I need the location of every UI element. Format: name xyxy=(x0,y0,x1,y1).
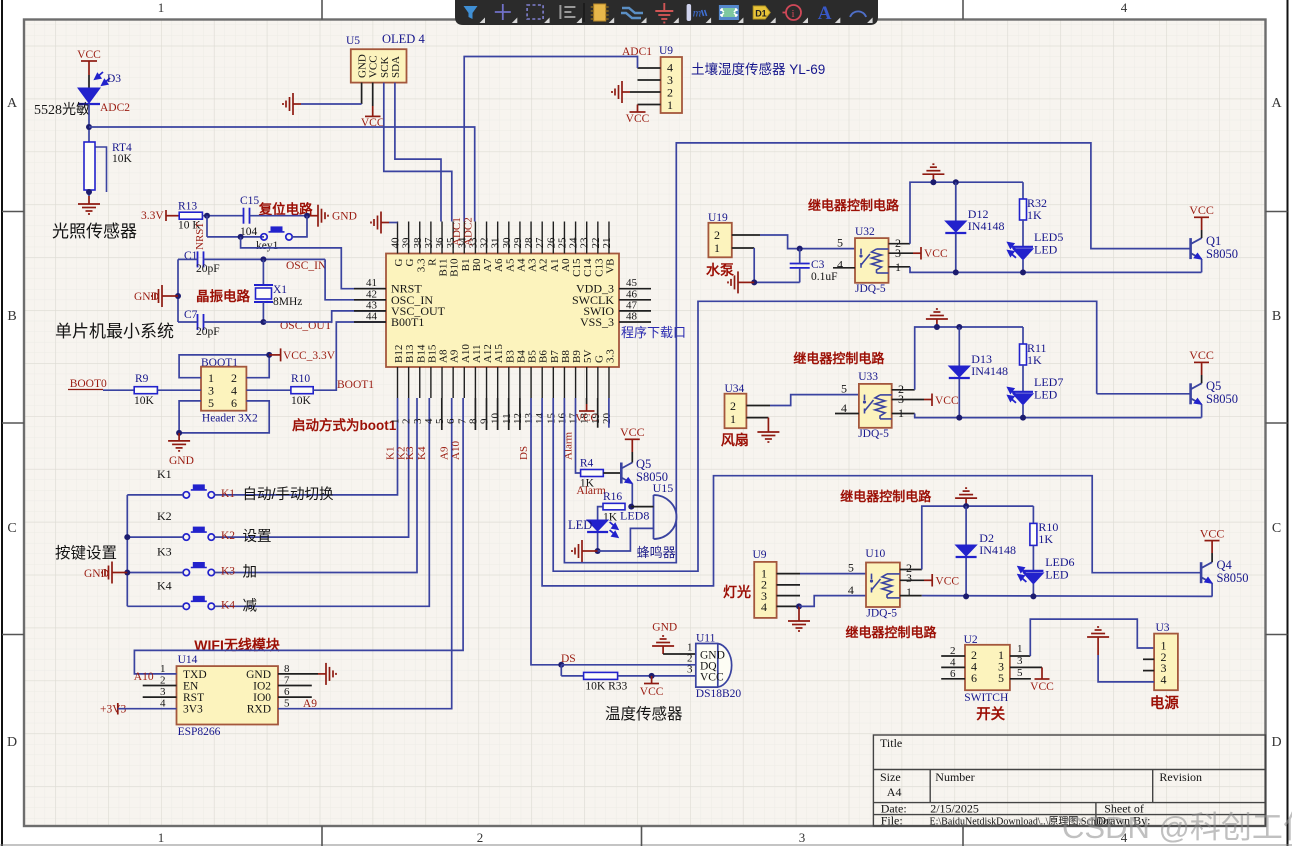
svg-text:设置: 设置 xyxy=(243,528,272,545)
svg-text:48: 48 xyxy=(626,311,638,323)
svg-text:D: D xyxy=(7,735,17,750)
pin U9b-2 stub xyxy=(777,584,800,586)
wire C1 left rail xyxy=(178,258,198,260)
ground MCU pin40 xyxy=(371,212,389,234)
pin relay2-3 VCC xyxy=(892,399,924,401)
svg-text:IN4148: IN4148 xyxy=(971,364,1008,378)
pin MCU-24 xyxy=(575,222,577,254)
resistor R11 1K xyxy=(1022,327,1024,344)
wire U19 pin2 to relay5 xyxy=(732,234,760,236)
svg-text:继电器控制电路: 继电器控制电路 xyxy=(840,489,932,504)
svg-text:光照传感器: 光照传感器 xyxy=(52,222,137,241)
svg-text:蜂鸣器: 蜂鸣器 xyxy=(637,545,676,560)
svg-text:U32: U32 xyxy=(855,226,875,238)
svg-text:K4: K4 xyxy=(221,599,235,611)
pin MCU-9 xyxy=(486,367,488,398)
resistor R9 10K xyxy=(103,389,134,391)
pin MCU-42 xyxy=(354,299,386,301)
pin relay2-4 stub xyxy=(835,413,859,415)
svg-text:B: B xyxy=(7,309,16,324)
wire relay1 pin2 up to rail xyxy=(889,243,911,245)
pin MCU-36 xyxy=(441,222,443,254)
svg-text:R4: R4 xyxy=(580,458,594,470)
ground reset xyxy=(310,205,328,227)
svg-text:D3: D3 xyxy=(107,73,121,85)
pin MCU-27 xyxy=(541,222,543,254)
pin U2-2 xyxy=(941,655,965,657)
svg-text:1K: 1K xyxy=(1038,532,1053,546)
ground U9 xyxy=(612,81,630,103)
pin MCU-46 xyxy=(619,299,651,301)
pin U9-2 to ground xyxy=(630,91,661,93)
svg-text:LED: LED xyxy=(568,518,592,532)
svg-text:key1: key1 xyxy=(256,240,279,252)
wire net K4 to MCU xyxy=(215,398,430,606)
ground relay3 top xyxy=(955,488,977,506)
svg-text:2: 2 xyxy=(730,399,736,413)
svg-text:VSS_3: VSS_3 xyxy=(580,315,614,329)
svg-text:R13: R13 xyxy=(178,201,197,213)
svg-text:8MHz: 8MHz xyxy=(273,296,302,308)
svg-text:1: 1 xyxy=(1017,643,1023,655)
svg-text:A10: A10 xyxy=(450,441,462,460)
svg-text:VB: VB xyxy=(604,259,616,274)
pin MCU-45 xyxy=(619,288,651,290)
pin U9-1 to VCC xyxy=(638,104,661,106)
pin stubs IO2 IO0 xyxy=(278,685,312,687)
ground light sensor xyxy=(78,196,100,214)
wire U9b pin4 junction xyxy=(777,605,799,607)
resistor R33 10K xyxy=(561,675,583,677)
svg-text:ADC2: ADC2 xyxy=(100,102,130,114)
svg-text:ADC1: ADC1 xyxy=(451,217,463,246)
svg-text:按键设置: 按键设置 xyxy=(55,544,117,562)
wire K4 left xyxy=(127,605,183,607)
wire net Alarm pin17 to R4 xyxy=(576,398,581,473)
power VCC pin18 xyxy=(586,398,588,404)
pin MCU-19 xyxy=(597,367,599,398)
transistor Q4 S8050 xyxy=(1201,562,1212,583)
wire header pin5 to gnd loop xyxy=(179,401,269,433)
pin relay1-3 VCC xyxy=(889,252,914,254)
svg-text:EN: EN xyxy=(183,681,199,693)
wire net relay2 ctrl pin15 xyxy=(553,301,1096,571)
svg-text:5: 5 xyxy=(998,671,1004,685)
header 3x2 xyxy=(201,367,246,411)
svg-text:Header 3X2: Header 3X2 xyxy=(202,413,258,425)
svg-text:1: 1 xyxy=(730,412,736,426)
svg-text:File:: File: xyxy=(881,814,903,828)
svg-text:4: 4 xyxy=(950,656,956,668)
wire R13 to C15 xyxy=(202,215,243,217)
svg-text:电源: 电源 xyxy=(1150,694,1179,712)
wire U3 pin4 to ground xyxy=(1098,655,1154,682)
svg-text:DS: DS xyxy=(518,446,530,460)
svg-text:U10: U10 xyxy=(865,548,885,560)
resistor R10 10K xyxy=(291,387,313,394)
svg-text:2: 2 xyxy=(714,228,720,242)
svg-text:3.3V: 3.3V xyxy=(141,210,164,222)
svg-text:44: 44 xyxy=(366,311,378,323)
wire key1 right to node xyxy=(292,216,307,237)
pin MCU-43 xyxy=(354,310,386,312)
svg-text:减: 减 xyxy=(243,597,258,614)
svg-text:K1: K1 xyxy=(157,467,172,481)
wire net DS pin13 xyxy=(531,398,561,665)
pin MCU-23 xyxy=(586,222,588,254)
diode D2 IN4148 xyxy=(965,506,967,596)
wire net A9 U14 RXD to MCU pin6 xyxy=(278,398,452,709)
svg-text:A9: A9 xyxy=(303,698,317,710)
svg-text:U33: U33 xyxy=(858,371,878,383)
wire DS to U11 DQ xyxy=(561,664,696,666)
node ADC2 junction xyxy=(86,124,92,130)
wire net BOOT1 to MCU pin44 xyxy=(313,322,386,390)
svg-text:LED: LED xyxy=(1034,243,1058,257)
svg-text:Size: Size xyxy=(880,770,901,784)
svg-text:VCC: VCC xyxy=(361,117,385,129)
wire relay3 pin1 bottom rail xyxy=(900,595,922,597)
resistor R4 1K xyxy=(581,470,604,477)
svg-text:TXD: TXD xyxy=(183,669,207,681)
svg-text:S8050: S8050 xyxy=(1206,392,1238,406)
wire net relay3 ctrl pin14 xyxy=(542,398,1201,586)
svg-text:3: 3 xyxy=(1017,655,1023,667)
node NRST xyxy=(204,213,210,219)
svg-text:10K R33: 10K R33 xyxy=(585,681,627,693)
wire K3 left xyxy=(127,572,183,574)
pin MCU-38 xyxy=(419,222,421,254)
svg-text:C: C xyxy=(1272,521,1281,536)
svg-text:单片机最小系统: 单片机最小系统 xyxy=(55,322,174,341)
pin MCU-5 xyxy=(441,367,443,398)
svg-text:U9: U9 xyxy=(753,549,767,561)
ground BOOT xyxy=(168,433,190,451)
svg-text:R10: R10 xyxy=(291,373,310,385)
svg-text:5528光敏: 5528光敏 xyxy=(34,102,90,118)
wire Q5b emitter xyxy=(1201,404,1203,417)
svg-text:VCC: VCC xyxy=(626,113,650,125)
wire U9b pin1 to relay5 xyxy=(777,573,800,575)
svg-text:C15: C15 xyxy=(240,195,259,207)
svg-text:Title: Title xyxy=(880,736,902,750)
svg-text:U15: U15 xyxy=(653,481,674,495)
resistor R32 1K xyxy=(1022,182,1024,199)
wire net K1 to MCU xyxy=(215,398,398,495)
svg-text:3: 3 xyxy=(906,571,912,585)
svg-text:B: B xyxy=(1272,309,1281,324)
transistor Q5 S8050 xyxy=(621,463,632,484)
wire net K2 to MCU xyxy=(215,398,409,537)
svg-text:VCC_3.3V: VCC_3.3V xyxy=(283,350,336,362)
ground crystal xyxy=(175,293,181,299)
svg-text:K3: K3 xyxy=(404,446,416,460)
svg-text:U14: U14 xyxy=(178,654,198,666)
svg-text:IN4148: IN4148 xyxy=(968,219,1005,233)
svg-text:晶振电路: 晶振电路 xyxy=(196,288,250,304)
svg-text:4: 4 xyxy=(1161,672,1167,686)
wire relay2 pin1 bottom rail xyxy=(892,413,915,415)
wire header pin4 to R10 xyxy=(246,389,291,391)
wire button common rail xyxy=(126,495,128,606)
svg-text:OLED 4: OLED 4 xyxy=(382,32,425,46)
power VCC Q5 xyxy=(631,452,633,463)
diode D12 IN4148 xyxy=(953,179,959,185)
wire Q4 emitter xyxy=(1211,583,1213,596)
ground buzzer xyxy=(590,550,598,552)
svg-text:5: 5 xyxy=(208,396,214,410)
wire C15 to GND xyxy=(250,215,311,217)
wire pin2 to VCC_3.3V xyxy=(246,355,269,378)
wire Q5 emitter down xyxy=(631,484,633,507)
pin relay3-3 VCC xyxy=(900,579,924,581)
svg-text:温度传感器: 温度传感器 xyxy=(605,705,683,723)
pin U9-3 stub xyxy=(638,79,661,81)
pin U2-4 xyxy=(941,666,965,668)
pin MCU-48 xyxy=(619,321,651,323)
svg-text:4: 4 xyxy=(837,258,843,272)
svg-text:S8050: S8050 xyxy=(1206,247,1238,261)
svg-text:10K: 10K xyxy=(291,395,312,407)
pin MCU-29 xyxy=(519,222,521,254)
pin MCU-37 xyxy=(430,222,432,254)
svg-text:灯光: 灯光 xyxy=(723,584,751,600)
ground U14 xyxy=(318,663,336,685)
svg-text:A9: A9 xyxy=(439,446,451,460)
pin MCU-44 xyxy=(354,321,386,323)
wire Q1 emitter xyxy=(1201,259,1203,272)
wire net ADC2 to MCU pin33 xyxy=(89,127,475,222)
svg-text:LED8: LED8 xyxy=(620,509,649,523)
svg-text:Q5: Q5 xyxy=(636,457,651,471)
svg-text:VCC: VCC xyxy=(77,49,101,61)
led LED8 xyxy=(587,520,608,531)
svg-text:RST: RST xyxy=(183,692,204,704)
svg-text:土壤湿度传感器 YL-69: 土壤湿度传感器 YL-69 xyxy=(691,61,825,77)
svg-text:JDQ-5: JDQ-5 xyxy=(855,283,886,295)
wire OLED SCK to MCU pin35 xyxy=(384,83,452,222)
wire R9 to header pin3 xyxy=(157,389,201,391)
svg-text:0.1uF: 0.1uF xyxy=(811,271,838,283)
photodiode D3 5528 xyxy=(78,88,100,103)
wire U11 GND pin xyxy=(663,653,696,655)
pin U3-2 stub xyxy=(1143,658,1154,660)
svg-text:K3: K3 xyxy=(157,545,172,559)
pin stubs EN RST xyxy=(143,685,177,687)
svg-text:ESP8266: ESP8266 xyxy=(178,726,221,738)
led LED7 xyxy=(1022,365,1024,391)
svg-text:R16: R16 xyxy=(603,491,622,503)
svg-text:IO0: IO0 xyxy=(253,692,271,704)
pin19 pin20 stubs xyxy=(597,398,599,428)
svg-text:5: 5 xyxy=(1017,667,1023,679)
pin U14-8 GND wire xyxy=(278,673,318,675)
svg-text:VCC: VCC xyxy=(640,686,664,698)
wire OLED GND pin to ground xyxy=(361,83,363,104)
svg-text:VCC: VCC xyxy=(924,248,948,260)
ic U-MCU STM32 xyxy=(386,254,619,368)
pin MCU-33 xyxy=(474,222,476,254)
pin MCU-20 xyxy=(608,367,610,398)
svg-text:开关: 开关 xyxy=(976,705,1005,723)
svg-text:1: 1 xyxy=(158,830,165,845)
svg-text:GND: GND xyxy=(246,669,271,681)
pin MCU-3 xyxy=(419,367,421,398)
svg-text:1K: 1K xyxy=(1027,208,1042,222)
svg-text:ADC2: ADC2 xyxy=(463,217,475,246)
svg-text:SDA: SDA xyxy=(390,56,402,78)
svg-text:D1: D1 xyxy=(755,9,767,19)
svg-text:NRST: NRST xyxy=(194,222,206,250)
svg-text:10K: 10K xyxy=(134,395,155,407)
svg-text:3: 3 xyxy=(687,664,693,676)
pin MCU-10 xyxy=(497,367,499,398)
svg-text:A: A xyxy=(1271,96,1282,111)
wire buzzer bottom pin xyxy=(598,528,654,551)
wire OLED SDA to MCU pin36 xyxy=(395,83,441,222)
svg-text:3.3: 3.3 xyxy=(604,349,616,363)
wire net ADC1 U9 pin4 to MCU pin34 xyxy=(638,67,661,69)
svg-text:U3: U3 xyxy=(1156,622,1170,634)
svg-text:加: 加 xyxy=(243,564,258,581)
svg-text:C3: C3 xyxy=(811,259,825,271)
svg-text:GND: GND xyxy=(134,291,159,303)
pin MCU-41 xyxy=(354,288,386,290)
svg-text:1: 1 xyxy=(158,0,165,15)
pin MCU-17 xyxy=(575,367,577,398)
wire relay1 pin1 bottom rail xyxy=(889,266,911,268)
ground U19 xyxy=(746,281,754,283)
pin MCU-15 xyxy=(552,367,554,398)
svg-text:K2: K2 xyxy=(221,530,235,542)
svg-text:S8050: S8050 xyxy=(1217,571,1249,585)
svg-text:K2: K2 xyxy=(157,509,172,523)
svg-text:CSDN @科创工作室I: CSDN @科创工作室I xyxy=(1062,810,1292,845)
pin MCU-47 xyxy=(619,310,651,312)
svg-text:JDQ-5: JDQ-5 xyxy=(858,428,889,440)
pin MCU-14 xyxy=(541,367,543,398)
svg-text:U9: U9 xyxy=(659,45,673,57)
svg-text:20pF: 20pF xyxy=(196,326,220,338)
wire D3 to RT4 xyxy=(88,104,90,142)
ground OLED xyxy=(283,93,301,115)
svg-text:DS18B20: DS18B20 xyxy=(696,688,742,700)
pin MCU-6 xyxy=(452,367,454,398)
svg-text:X1: X1 xyxy=(273,284,287,296)
power VCC Q4 xyxy=(1211,553,1213,562)
pin MCU-8 xyxy=(474,367,476,398)
svg-text:10K: 10K xyxy=(112,153,133,165)
svg-text:m: m xyxy=(693,6,702,20)
svg-text:VCC: VCC xyxy=(575,412,598,424)
capacitor C3 0.1uF xyxy=(790,264,810,268)
ground U3 xyxy=(1097,645,1099,655)
svg-text:i: i xyxy=(792,8,795,20)
svg-text:风扇: 风扇 xyxy=(721,432,749,448)
svg-text:启动方式为boot1: 启动方式为boot1 xyxy=(292,417,397,433)
crystal X1 8MHz xyxy=(204,258,326,260)
svg-text:2/15/2025: 2/15/2025 xyxy=(930,802,979,816)
power VCC Q5b xyxy=(1201,375,1203,383)
pin MCU-39 xyxy=(408,222,410,254)
svg-text:VCC: VCC xyxy=(1189,348,1214,362)
power VCC R33 xyxy=(651,676,653,683)
svg-text:GND: GND xyxy=(169,455,194,467)
pin MCU-26 xyxy=(552,222,554,254)
resistor R10 1K xyxy=(1032,506,1034,523)
svg-text:A: A xyxy=(7,96,18,111)
svg-text:20: 20 xyxy=(601,413,613,425)
svg-text:BOOT0: BOOT0 xyxy=(70,378,107,390)
svg-text:VCC: VCC xyxy=(935,395,959,407)
svg-text:JDQ-5: JDQ-5 xyxy=(866,608,897,620)
svg-text:C7: C7 xyxy=(184,309,198,321)
pin MCU-13 xyxy=(530,367,532,398)
svg-text:6: 6 xyxy=(971,671,977,685)
pin MCU-32 xyxy=(486,222,488,254)
svg-text:VCC: VCC xyxy=(620,425,645,439)
svg-text:Q5: Q5 xyxy=(1206,379,1221,393)
pin MCU-31 xyxy=(497,222,499,254)
led LED5 xyxy=(1022,220,1024,246)
capacitor C15 104 xyxy=(244,208,250,224)
svg-text:LED: LED xyxy=(1045,568,1069,582)
svg-text:GND: GND xyxy=(84,568,109,580)
ground U34 xyxy=(757,424,779,442)
pin MCU-1 xyxy=(397,367,399,398)
svg-text:VCC: VCC xyxy=(700,672,724,684)
svg-text:Alarm: Alarm xyxy=(576,485,605,497)
wire Q5b base from net xyxy=(1097,393,1191,395)
wire OSC_IN to MCU pin42 xyxy=(325,259,386,299)
svg-text:VCC: VCC xyxy=(1189,203,1214,217)
pin MCU-16 xyxy=(563,367,565,398)
svg-text:2: 2 xyxy=(687,653,693,665)
svg-text:4: 4 xyxy=(1121,0,1128,15)
wire RT4 to ground xyxy=(88,190,90,196)
ground U9b xyxy=(798,606,800,613)
svg-text:21: 21 xyxy=(601,238,613,249)
pin MCU-35 xyxy=(452,222,454,254)
title block xyxy=(873,735,1265,826)
pin MCU-40 xyxy=(397,222,399,254)
svg-text:A: A xyxy=(818,3,832,24)
svg-text:4: 4 xyxy=(761,600,767,614)
wire K2 left xyxy=(127,536,183,538)
pin MCU-2 xyxy=(408,367,410,398)
resistor R16 1K xyxy=(603,503,625,510)
diode D13 IN4148 xyxy=(956,324,962,330)
pin MCU-11 xyxy=(508,367,510,398)
power VCC_3.3V xyxy=(269,354,280,356)
wire LED8 to bottom rail xyxy=(597,533,599,551)
pin U9b-3 stub xyxy=(777,595,800,597)
pin relay1-4 stub xyxy=(833,267,855,269)
svg-text:VCC: VCC xyxy=(935,576,959,588)
ground buttons xyxy=(120,572,127,574)
svg-text:GND: GND xyxy=(652,622,677,634)
svg-text:2: 2 xyxy=(477,830,484,845)
svg-text:5: 5 xyxy=(848,561,854,575)
pin MCU-30 xyxy=(508,222,510,254)
wire R33 to VCC junction xyxy=(618,675,696,677)
svg-text:1: 1 xyxy=(906,585,912,599)
svg-text:5: 5 xyxy=(841,382,847,396)
svg-text:继电器控制电路: 继电器控制电路 xyxy=(793,351,885,366)
wire relay3 pin4 route xyxy=(799,596,866,607)
wire OSC_OUT xyxy=(178,321,198,323)
pin MCU-21 xyxy=(608,222,610,254)
